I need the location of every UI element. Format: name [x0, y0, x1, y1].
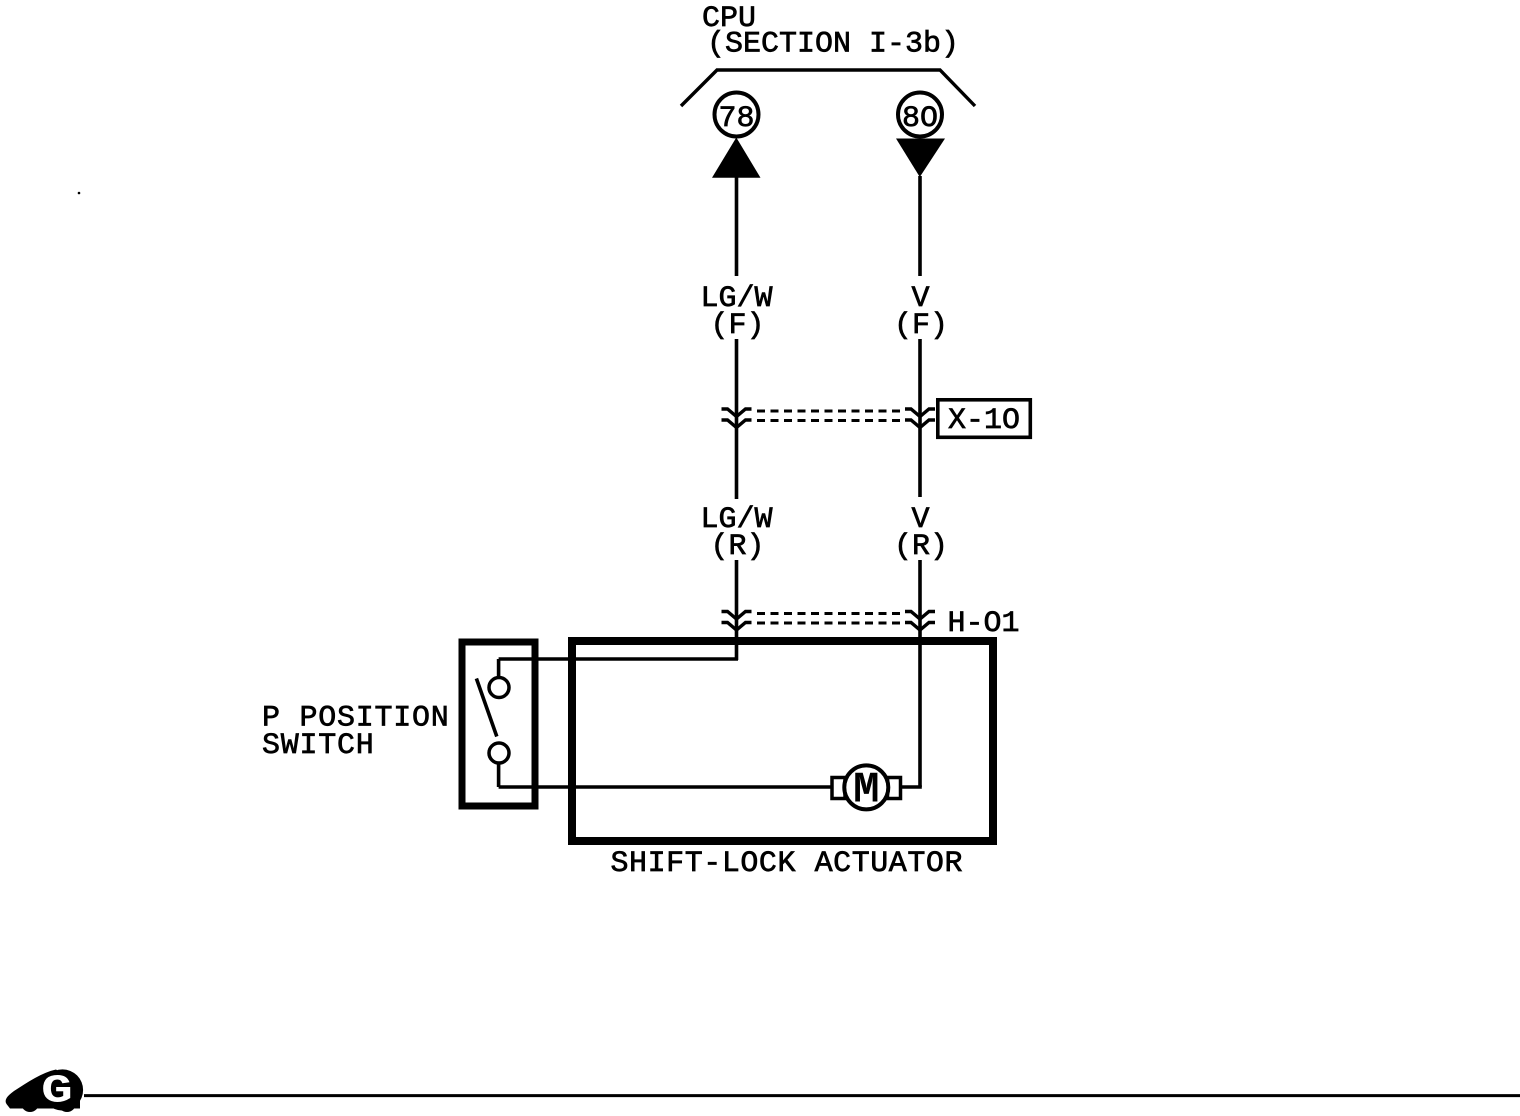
page footer G logo (car silhouette)	[6, 1069, 83, 1114]
arrow down from pin 80	[896, 139, 945, 178]
CPU connector bracket	[681, 70, 975, 106]
connector H-01 dashed link lines	[757, 614, 903, 624]
connector X-10 dashed link lines	[757, 411, 903, 421]
svg-text:SWITCH: SWITCH	[262, 729, 375, 763]
svg-text:78: 78	[718, 102, 754, 136]
wire LG/W (F) upper segment	[735, 177, 739, 276]
switch blade	[476, 679, 496, 737]
connector H-01 chevrons on LG/W wire	[722, 612, 752, 631]
wire from LG/W to P position switch (horizontal)	[499, 657, 738, 661]
svg-text:SHIFT-LOCK ACTUATOR: SHIFT-LOCK ACTUATOR	[611, 847, 964, 881]
svg-text:M: M	[853, 766, 879, 816]
svg-text:(R): (R)	[894, 530, 948, 564]
pin 78	[715, 93, 759, 137]
connector X-10 chevrons on LG/W wire	[722, 409, 752, 428]
pin 80	[898, 93, 942, 137]
motor M1	[832, 765, 901, 815]
svg-text:(F): (F)	[710, 309, 764, 343]
P position switch box	[462, 642, 535, 806]
wire V (R) lower segment	[918, 560, 922, 787]
switch contact top	[489, 678, 509, 698]
wire motor to V wire (horizontal)	[899, 785, 922, 789]
wire switch bottom pigtail	[497, 763, 501, 787]
svg-text:H-O1: H-O1	[948, 607, 1020, 641]
page footer rule	[84, 1094, 1520, 1097]
svg-text:(R): (R)	[710, 530, 764, 564]
wire V (F) upper segment	[918, 176, 922, 276]
wire switch top pigtail	[497, 659, 501, 678]
connector X-10 chevrons on V wire	[905, 409, 935, 428]
svg-text:8O: 8O	[902, 102, 938, 136]
wire V (F) lower segment	[918, 339, 922, 497]
svg-text:(SECTION I-3b): (SECTION I-3b)	[707, 28, 959, 62]
svg-text:G: G	[41, 1069, 73, 1114]
wire switch to motor (horizontal)	[499, 785, 833, 789]
wire LG/W (R) lower segment	[735, 560, 739, 660]
label P POSITION SWITCH	[262, 702, 450, 764]
wire label LG/W (R)	[700, 503, 772, 564]
wire label LG/W (F)	[700, 282, 772, 343]
svg-text:X-1O: X-1O	[948, 404, 1020, 438]
wire LG/W (F) lower segment	[735, 339, 739, 497]
connector H-01 chevrons on V wire	[905, 612, 935, 631]
stray scan dot	[78, 192, 81, 195]
wire label V (R)	[894, 503, 948, 564]
wire LG/W (R) segment	[735, 497, 739, 499]
svg-text:(F): (F)	[894, 309, 948, 343]
shift-lock actuator box	[572, 641, 993, 841]
connector X-10 label box	[938, 400, 1031, 438]
wire label V (F)	[894, 282, 948, 343]
switch contact bottom	[489, 743, 509, 763]
arrow up to pin 78	[712, 138, 761, 178]
